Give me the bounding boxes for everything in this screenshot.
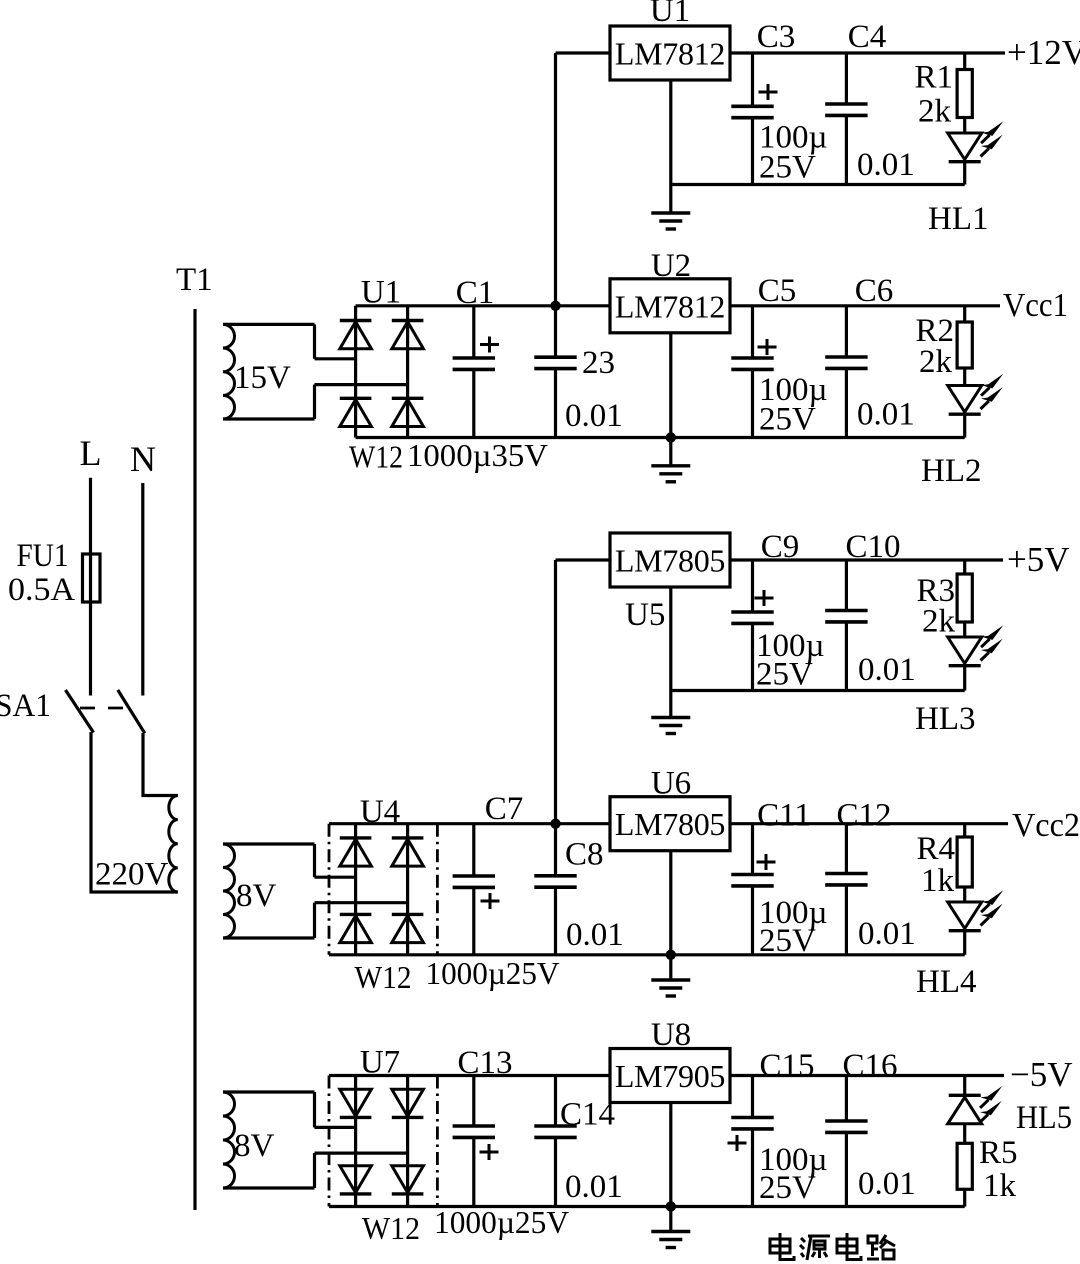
svg-text:R4: R4	[916, 831, 955, 867]
svg-text:0.01: 0.01	[858, 916, 916, 952]
switch SA1 pole N	[118, 690, 145, 733]
label 25V (C15)	[759, 1170, 816, 1206]
label 0.01 (C8)	[566, 917, 624, 953]
diode D7 (U4 bottom-left)	[340, 914, 372, 942]
bridge U7 right column wire	[406, 1076, 409, 1207]
wire L drop	[89, 478, 92, 554]
capacitor C15 (100u 25V)	[728, 1076, 774, 1207]
regulator IC U1 top (LM7812)	[610, 26, 730, 80]
label C13	[457, 1045, 512, 1081]
ground (row 5)	[651, 1232, 690, 1248]
svg-text:+5V: +5V	[1007, 540, 1070, 579]
wire row2 ground bus	[356, 436, 965, 439]
label 0.01 (cap 23)	[565, 398, 623, 434]
svg-text:C10: C10	[845, 529, 900, 565]
label U6	[651, 766, 691, 802]
label 100u (C3)	[759, 120, 828, 156]
resistor R4 1k	[957, 824, 972, 887]
bridge U4 right column wire	[406, 824, 409, 955]
regulator IC U5 (LM7805)	[610, 533, 730, 587]
label 100u (C11)	[759, 895, 828, 931]
svg-text:C13: C13	[457, 1045, 512, 1081]
resistor R5 1k	[957, 1143, 972, 1206]
capacitor C3 (100u 25V)	[731, 53, 777, 185]
label W12 (U1)	[349, 439, 403, 475]
label 25V (C3)	[759, 150, 816, 186]
wire +12V output rail	[730, 51, 1005, 54]
label HL2	[921, 453, 982, 489]
diode D12 (U7 bottom-right)	[392, 1166, 424, 1194]
capacitor C9 (100u 25V)	[731, 560, 773, 691]
wire bridge U1 to U2 rail	[356, 304, 610, 307]
node ground junction row4	[666, 950, 676, 960]
bridge U4 left dash-dot border	[328, 824, 331, 955]
ground (row 4)	[651, 980, 690, 996]
svg-text:0.01: 0.01	[565, 1169, 623, 1205]
svg-text:W12: W12	[349, 439, 403, 475]
svg-text:HL4: HL4	[916, 964, 977, 1000]
svg-text:0.01: 0.01	[857, 147, 915, 183]
svg-text:LM7812: LM7812	[615, 288, 725, 324]
switch SA1 linkage	[80, 707, 127, 710]
node L (mains live label)	[80, 433, 102, 473]
wire -5V output rail	[730, 1074, 1004, 1077]
transformer secondary 8V winding (row 4)	[223, 844, 408, 938]
regulator IC U8 (LM7905)	[610, 1049, 730, 1103]
svg-text:C6: C6	[855, 273, 894, 309]
label 1000u25V (C13 value)	[434, 1204, 569, 1240]
LED HL5	[948, 1076, 982, 1144]
label 220V	[95, 857, 169, 893]
resistor R1 2k	[957, 53, 972, 118]
label -5V	[1010, 1055, 1073, 1094]
label FU1	[17, 538, 69, 574]
svg-text:8V: 8V	[236, 878, 277, 914]
ground (row 1)	[651, 213, 690, 229]
svg-text:HL5: HL5	[1016, 1100, 1072, 1136]
regulator IC U2 (LM7812)	[610, 279, 730, 333]
svg-text:0.01: 0.01	[857, 397, 915, 433]
label 2k (R1)	[918, 94, 952, 130]
svg-text:U6: U6	[651, 766, 691, 802]
label R1	[914, 60, 953, 96]
label T1	[176, 262, 213, 298]
svg-text:HL3: HL3	[915, 701, 976, 737]
svg-text:C11: C11	[757, 798, 811, 834]
wire feed drop U1 to node A	[554, 53, 557, 306]
svg-text:LM7805: LM7805	[615, 806, 725, 842]
label 25V (C9)	[756, 657, 813, 693]
fuse FU1	[83, 554, 101, 602]
svg-text:C15: C15	[759, 1048, 814, 1084]
wire bridge U4 to U6 rail	[329, 822, 610, 825]
label R2	[915, 313, 954, 349]
diode D9 (U7 top-left)	[340, 1089, 372, 1117]
svg-text:2k: 2k	[919, 344, 953, 380]
svg-text:C4: C4	[848, 19, 887, 55]
svg-text:0.01: 0.01	[858, 652, 916, 688]
label U2	[651, 248, 691, 284]
svg-text:25V: 25V	[759, 923, 816, 959]
label HL3	[915, 701, 976, 737]
svg-text:+12V: +12V	[1007, 33, 1080, 72]
label C3	[757, 19, 796, 55]
transformer T1 primary winding 220V	[169, 796, 178, 893]
label 1000u25V (C7 value)	[426, 955, 560, 991]
node ground junction row2	[666, 432, 676, 442]
capacitor C1 (1000u 35V)	[453, 306, 499, 438]
label C11	[757, 798, 811, 834]
label R4	[916, 831, 955, 867]
svg-text:C8: C8	[565, 837, 604, 873]
svg-text:Vcc1: Vcc1	[1003, 287, 1068, 324]
wire N switch to primary top	[142, 733, 178, 797]
label C14	[560, 1097, 615, 1133]
label 0.01 (C10)	[858, 652, 916, 688]
svg-text:C16: C16	[842, 1048, 897, 1084]
svg-text:FU1: FU1	[17, 538, 69, 574]
LED HL2 light arrows	[981, 374, 1004, 409]
wire Vcc2 output rail	[730, 822, 1008, 825]
wire U1 ground stem	[669, 80, 672, 213]
svg-text:LM7812: LM7812	[615, 36, 725, 72]
diode D3 (U1 bottom-left)	[340, 398, 372, 426]
wire L switch to primary bottom	[90, 732, 178, 894]
label 2k (R3)	[922, 604, 956, 640]
label U8	[651, 1017, 691, 1053]
label C12	[836, 798, 891, 834]
svg-text:C1: C1	[456, 275, 495, 311]
diode D2 (U1 top-right)	[392, 321, 424, 349]
label C6	[855, 273, 894, 309]
LED HL5 light arrows	[980, 1086, 1003, 1123]
node N (mains neutral label)	[130, 439, 156, 479]
svg-text:23: 23	[582, 345, 615, 381]
label 25V (C5)	[759, 402, 816, 438]
label 100u (C5)	[759, 372, 828, 408]
transformer T1 core	[193, 309, 196, 1210]
wire bridge U7 to U8 rail	[329, 1074, 610, 1077]
svg-text:C5: C5	[758, 273, 797, 309]
ground (row 2)	[651, 466, 690, 482]
node B junction dot	[550, 819, 560, 829]
label 0.01 (C14)	[565, 1169, 623, 1205]
label C10	[845, 529, 900, 565]
label U5	[625, 597, 665, 633]
label 100u (C9)	[756, 628, 825, 664]
LED HL3	[948, 622, 982, 691]
label U1 (regulator)	[650, 0, 690, 29]
svg-text:N: N	[130, 439, 156, 479]
label 0.01 (C6)	[857, 397, 915, 433]
label 0.01 (C12)	[858, 916, 916, 952]
regulator IC U6 (LM7805)	[610, 797, 730, 851]
wire U5 input from feed	[556, 558, 611, 561]
label HL4	[916, 964, 977, 1000]
label 23	[582, 345, 615, 381]
svg-text:W12: W12	[355, 959, 412, 995]
svg-text:0.01: 0.01	[566, 917, 624, 953]
bridge rectifier U4 label	[360, 794, 400, 830]
capacitor C16 (0.01)	[825, 1076, 867, 1207]
title 电源电路 (power supply circuit)	[770, 1233, 895, 1260]
wire Vcc1 output rail	[730, 304, 1000, 307]
label 100u (C15)	[759, 1142, 828, 1178]
svg-text:U2: U2	[651, 248, 691, 284]
bridge U1 left column wire	[354, 306, 357, 438]
label +5V	[1007, 540, 1070, 579]
capacitor C6 (0.01)	[825, 306, 867, 438]
wire U1 input from feed	[556, 51, 611, 54]
label R5	[979, 1135, 1018, 1171]
bridge rectifier U1 label	[361, 275, 401, 311]
svg-text:0.5A: 0.5A	[8, 572, 75, 608]
svg-text:25V: 25V	[759, 402, 816, 438]
svg-text:1000µ35V: 1000µ35V	[407, 437, 548, 473]
diode D1 (U1 top-left)	[340, 321, 372, 349]
wire feed drop U5 to node B	[554, 560, 557, 824]
LED HL3 light arrows	[981, 625, 1004, 660]
wire L to switch	[89, 602, 92, 696]
resistor R2 2k	[957, 306, 972, 368]
LED HL4 light arrows	[981, 890, 1004, 925]
svg-text:R1: R1	[914, 60, 953, 96]
diode D5 (U4 top-left)	[340, 838, 372, 866]
svg-text:U1: U1	[650, 0, 690, 29]
svg-text:2k: 2k	[922, 604, 956, 640]
svg-text:1k: 1k	[983, 1168, 1017, 1204]
bridge U7 right dash-dot border	[436, 1076, 439, 1207]
label +12V	[1007, 33, 1080, 72]
label Vcc1	[1003, 287, 1068, 324]
diode D4 (U1 bottom-right)	[392, 398, 424, 426]
label C7	[485, 791, 524, 827]
svg-text:U8: U8	[651, 1017, 691, 1053]
svg-text:HL1: HL1	[928, 201, 989, 237]
diode D8 (U4 bottom-right)	[392, 914, 424, 942]
transformer secondary 8V winding (row 5)	[223, 1092, 408, 1188]
label SA1	[0, 688, 51, 724]
svg-text:0.01: 0.01	[565, 398, 623, 434]
svg-text:U5: U5	[625, 597, 665, 633]
svg-text:2k: 2k	[918, 94, 952, 130]
label 1000u35V (C1 value)	[407, 437, 548, 473]
label W12 (U7)	[362, 1210, 420, 1246]
label HL5	[1016, 1100, 1072, 1136]
bridge U4 right dash-dot border	[436, 824, 439, 955]
svg-text:C9: C9	[761, 529, 800, 565]
label Vcc2	[1012, 807, 1080, 844]
wire row5 ground bus	[329, 1205, 965, 1208]
label C5	[758, 273, 797, 309]
svg-text:1000µ25V: 1000µ25V	[426, 955, 560, 991]
label 0.01 (C4)	[857, 147, 915, 183]
capacitor C10 (0.01)	[825, 560, 867, 691]
capacitor C7 (1000u 25V)	[453, 824, 500, 955]
svg-text:220V: 220V	[95, 857, 169, 893]
wire U5 ground stem	[669, 587, 672, 718]
diode D11 (U7 bottom-left)	[340, 1166, 372, 1194]
diode D6 (U4 top-right)	[392, 838, 424, 866]
capacitor C4 (0.01)	[825, 53, 867, 185]
bridge U1 right column wire	[406, 306, 409, 438]
svg-text:1k: 1k	[921, 863, 955, 899]
label 0.01 (C16)	[858, 1166, 916, 1202]
svg-text:HL2: HL2	[921, 453, 982, 489]
svg-text:−5V: −5V	[1010, 1055, 1073, 1094]
label C16	[842, 1048, 897, 1084]
label C15	[759, 1048, 814, 1084]
svg-text:R5: R5	[979, 1135, 1018, 1171]
wire N drop	[141, 483, 144, 696]
label 25V (C11)	[759, 923, 816, 959]
diode D10 (U7 top-right)	[392, 1089, 424, 1117]
svg-text:LM7905: LM7905	[615, 1058, 725, 1094]
svg-text:C12: C12	[836, 798, 891, 834]
label 2k (R2)	[919, 344, 953, 380]
label 0.5A	[8, 572, 75, 608]
label 1k (R4)	[921, 863, 955, 899]
wire U8 ground stem	[669, 1103, 672, 1232]
label W12 (U4)	[355, 959, 412, 995]
capacitor C5 (100u 25V)	[731, 306, 776, 438]
wire U2 ground stem	[669, 333, 672, 466]
LED HL1	[948, 118, 982, 185]
label C8	[565, 837, 604, 873]
svg-text:C3: C3	[757, 19, 796, 55]
capacitor C11 (100u 25V)	[731, 824, 775, 955]
transformer secondary 15V winding	[223, 324, 408, 419]
svg-text:L: L	[80, 433, 102, 473]
svg-text:1000µ25V: 1000µ25V	[434, 1204, 569, 1240]
LED HL1 light arrows	[981, 121, 1004, 156]
bridge U7 left dash-dot border	[328, 1076, 331, 1207]
bridge U7 left column wire	[354, 1076, 357, 1207]
node ground junction row5	[666, 1201, 676, 1211]
capacitor 23 (0.01)	[534, 306, 576, 438]
svg-text:T1: T1	[176, 262, 213, 298]
svg-text:0.01: 0.01	[858, 1166, 916, 1202]
label R3	[916, 573, 955, 609]
capacitor C8 (0.01)	[534, 824, 576, 955]
wire row4 ground bus	[329, 953, 965, 956]
svg-text:LM7805: LM7805	[615, 543, 725, 579]
resistor R3 2k	[957, 560, 972, 622]
LED HL2	[948, 368, 982, 438]
svg-text:Vcc2: Vcc2	[1012, 807, 1080, 844]
svg-text:C7: C7	[485, 791, 524, 827]
svg-text:15V: 15V	[234, 360, 291, 396]
svg-text:C14: C14	[560, 1097, 615, 1133]
label C4	[848, 19, 887, 55]
switch SA1 pole L	[66, 690, 94, 733]
svg-text:25V: 25V	[756, 657, 813, 693]
wire row1 ground bus	[671, 183, 965, 186]
bridge rectifier U7 label	[360, 1045, 400, 1081]
capacitor C13 (1000u 25V)	[453, 1076, 499, 1207]
svg-text:8V: 8V	[234, 1128, 275, 1164]
LED HL4	[948, 887, 982, 955]
ground (row 3)	[651, 718, 690, 734]
label C1	[456, 275, 495, 311]
wire row3 ground bus	[671, 689, 965, 692]
label HL1	[928, 201, 989, 237]
capacitor C12 (0.01)	[825, 824, 867, 955]
label 1k (R5)	[983, 1168, 1017, 1204]
capacitor C14 (0.01)	[534, 1076, 576, 1207]
label C9	[761, 529, 800, 565]
svg-text:25V: 25V	[759, 1170, 816, 1206]
wire U6 ground stem	[669, 851, 672, 980]
bridge U4 left column wire	[354, 824, 357, 955]
svg-text:W12: W12	[362, 1210, 420, 1246]
wire +5V output rail	[730, 558, 1003, 561]
svg-text:25V: 25V	[759, 150, 816, 186]
node A junction dot	[550, 301, 560, 311]
svg-text:SA1: SA1	[0, 688, 51, 724]
